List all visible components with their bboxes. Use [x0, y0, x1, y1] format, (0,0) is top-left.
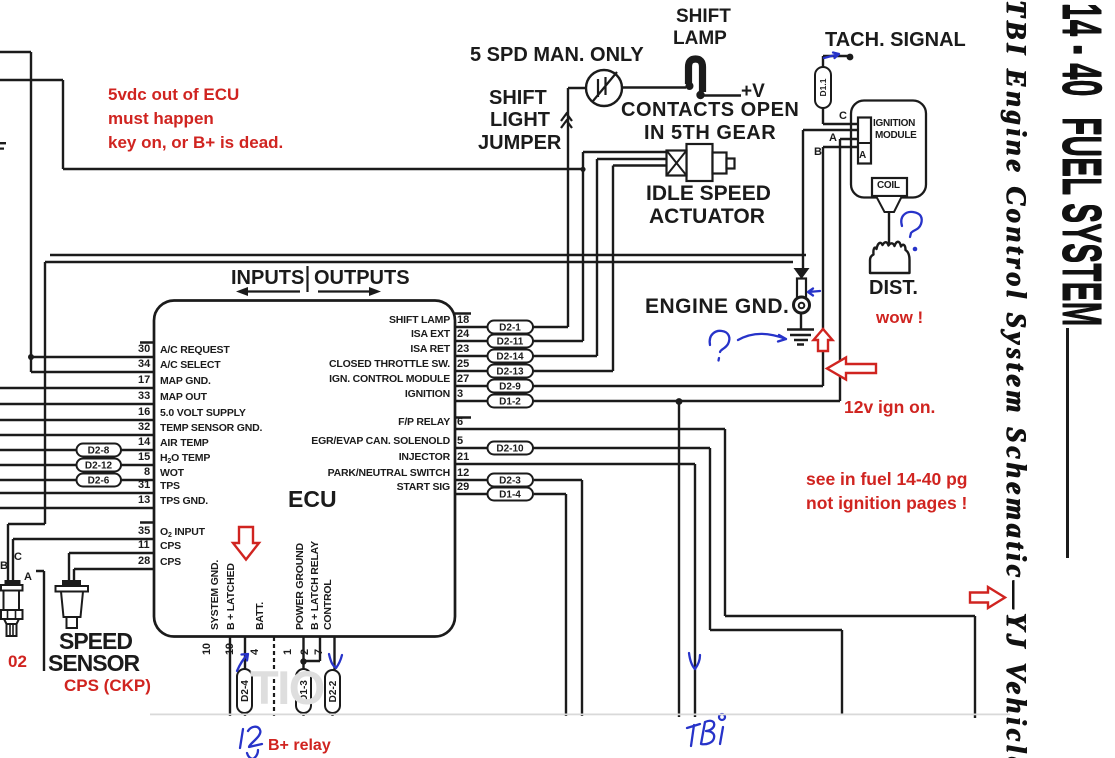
svg-text:D1.1: D1.1 [818, 78, 828, 96]
svg-text:D2-1: D2-1 [499, 323, 521, 334]
svg-text:D2-14: D2-14 [496, 352, 524, 363]
svg-text:D1-4: D1-4 [499, 490, 521, 501]
svg-text:D2-12: D2-12 [85, 461, 113, 472]
svg-text:D2-2: D2-2 [328, 680, 339, 702]
svg-text:D2-9: D2-9 [499, 382, 521, 393]
svg-text:D2-6: D2-6 [88, 476, 110, 487]
svg-text:D2-11: D2-11 [497, 337, 524, 348]
svg-text:D1-2: D1-2 [499, 397, 521, 408]
svg-text:D2-8: D2-8 [88, 446, 110, 457]
svg-text:D2-13: D2-13 [496, 367, 524, 378]
svg-text:D2-3: D2-3 [499, 476, 521, 487]
svg-text:D2-10: D2-10 [496, 444, 524, 455]
